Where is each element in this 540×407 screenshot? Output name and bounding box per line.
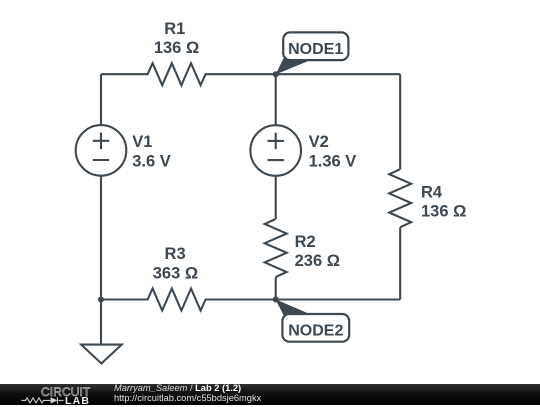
svg-text:136 Ω: 136 Ω xyxy=(421,203,466,221)
svg-text:236 Ω: 236 Ω xyxy=(295,252,340,270)
svg-text:NODE2: NODE2 xyxy=(288,323,343,340)
svg-text:R4: R4 xyxy=(421,184,443,202)
svg-text:R3: R3 xyxy=(165,245,186,263)
svg-text:V2: V2 xyxy=(309,133,329,151)
svg-text:363 Ω: 363 Ω xyxy=(153,264,198,282)
svg-text:V1: V1 xyxy=(132,133,152,151)
svg-text:R2: R2 xyxy=(295,233,316,251)
svg-text:1.36 V: 1.36 V xyxy=(309,152,357,170)
svg-text:136 Ω: 136 Ω xyxy=(154,39,199,57)
svg-text:3.6 V: 3.6 V xyxy=(132,152,171,170)
svg-text:R1: R1 xyxy=(164,20,185,38)
svg-text:NODE1: NODE1 xyxy=(288,41,343,58)
